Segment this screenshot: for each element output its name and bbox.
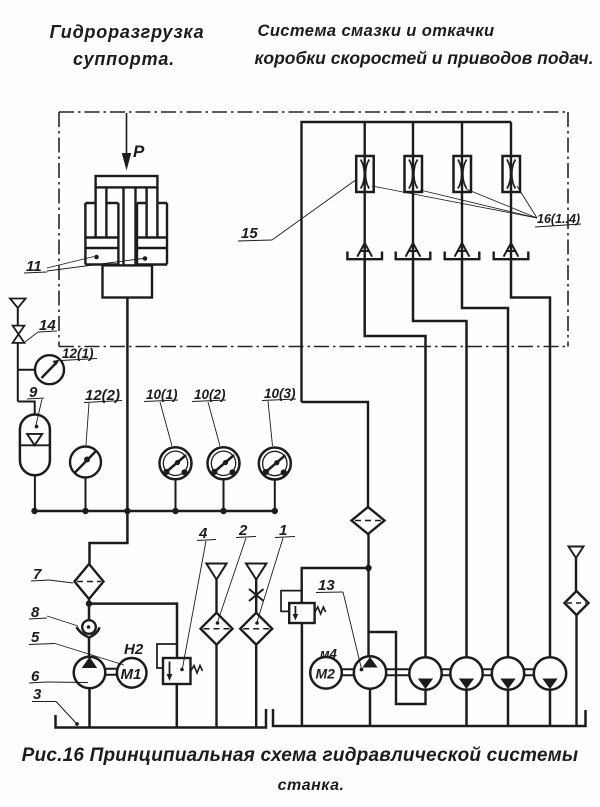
label 14 [25,317,57,342]
accumulator 9 body [20,415,50,476]
cylinder 11 right barrel [137,203,167,265]
nozzle tray 3 [445,252,480,260]
label 8 [29,604,78,626]
cylinder 11 left piston rod [96,187,107,237]
force arrow P line [126,113,128,155]
svg-text:Р: Р [133,142,145,161]
nozzle tray 1 [347,252,382,260]
lube branch 1 drop pipe [364,122,366,259]
pipe funnel right to filter [575,558,577,592]
coupling to fourth scavenge pump [524,669,534,675]
cylinder 11 right piston rod [147,187,158,237]
contact gauge 10(2) [208,447,240,479]
label 5 [29,629,124,665]
pipe branch 4 step to pump [511,259,550,658]
junction dot relief tap [365,565,371,571]
bus pipe left system [34,510,275,513]
coupling to third scavenge pump [483,669,492,675]
svg-text:16(1..4): 16(1..4) [537,212,580,226]
pipe gauge 10(1) to bus [175,479,177,511]
caption [22,745,579,794]
svg-text:М2: М2 [316,666,336,682]
supply header pipe [302,122,512,402]
coupling to second scavenge pump [442,669,451,675]
cylinder 11 top plate [96,176,158,187]
label 13 [316,577,363,671]
coupling pump 13 to pump row [386,669,409,675]
pipe funnel 2 to filter 2 [215,580,217,614]
svg-text:М1: М1 [121,666,142,683]
svg-text:2: 2 [238,522,248,539]
contact gauge 10(1) [160,447,192,479]
svg-text:Система смазки и откачки: Система смазки и откачки [258,22,495,40]
label 3 [32,686,79,726]
pipe gauge 10(2) to bus [223,479,225,511]
title left [50,22,205,69]
accumulator 9 gas separator [20,434,50,445]
label 10(2) [192,387,226,446]
shutoff valve 14 [13,326,25,343]
gauge 12(1) [35,355,64,384]
svg-text:15: 15 [241,225,258,242]
nozzle arrow 1 [357,243,372,257]
pressure filter right system [352,507,385,534]
pipe gauge 12(2) to bus [85,478,87,512]
nozzle arrow 3 [455,243,470,257]
electric motor M1 [117,658,147,688]
svg-text:4: 4 [198,525,208,542]
pipe branch 3 step to pump [462,259,508,658]
svg-text:13: 13 [318,577,335,594]
label 1 [255,522,295,625]
label 7 [31,566,73,583]
pipe relief valve 4 to tank [176,684,179,727]
tank right [273,709,586,726]
tank left [56,709,267,728]
svg-text:Рис.16 Принципиальная схема ги: Рис.16 Принципиальная схема гидравлическ… [22,745,579,766]
electric motor M2 [310,657,342,689]
pipe pump 5 to tank [88,688,91,727]
pipe filter right to tank [575,615,577,725]
pipe relief valve right to tank [301,623,304,725]
nozzle tray 2 [396,252,431,260]
pipe breather to valve 14 [17,308,19,326]
label 6 [29,668,88,685]
svg-text:Гидроразгрузка: Гидроразгрузка [50,22,205,42]
relief valve right pilot loop [281,591,302,612]
dash-dot enclosure frame [59,112,568,347]
pipe funnel 1 down [255,580,257,614]
filter right drain [565,591,589,615]
filter 1 [240,613,272,645]
funnel breather top-left [10,299,26,309]
label 12(1) [61,346,97,361]
pipe header to filter [302,402,369,507]
pipe junction to relief valve 4 [89,604,177,658]
pipe tap to relief valve [302,568,369,603]
cylinder 11 lower manifold [103,265,153,297]
nozzle arrow 2 [406,243,421,257]
label 11 [24,255,147,275]
check valve 8 [77,620,100,637]
svg-text:м4: м4 [320,646,338,661]
title right [255,22,594,68]
pipe branch 1 step to pump [365,259,426,658]
orifice 16(2) [405,156,423,192]
scavenge pump (first) [409,657,441,689]
svg-text:станка.: станка. [278,777,345,794]
funnel right [569,547,584,559]
svg-text:5: 5 [31,629,40,646]
pump 5 [74,657,106,689]
pipe bus down-jog to filter 7 [90,511,128,564]
lube branch 3 drop pipe [461,122,463,259]
pipe valve 14 down [17,343,19,402]
svg-text:суппорта.: суппорта. [73,49,175,69]
junction dots on bus [31,508,278,514]
label 15 [238,179,357,242]
pipe check valve to pump 5 [88,638,91,657]
gauge 12(2) [70,447,101,478]
filter 2 [201,613,233,645]
lube branch 4 drop pipe [510,122,512,259]
funnel 2 [206,564,226,580]
label 12(2) [84,387,122,445]
cylinder 11 central trunk [124,187,136,265]
label 10(3) [262,386,296,446]
pipe branch 2 step to pump [413,259,467,658]
coupling pump 5 to motor M1 [105,669,117,675]
scavenge pump (third) [492,657,524,689]
pipe filter 1 to tank [255,645,257,727]
pipe second scavenge pump to tank [465,690,468,725]
force arrow P head [122,153,131,171]
pipe gauge 10(3) to bus [274,480,276,512]
scavenge pump (fourth) [534,657,566,689]
shutoff X on line 1 [249,589,264,601]
relief valve right [289,603,325,623]
label 4 [183,525,217,668]
contact gauge 10(3) [259,448,291,480]
svg-text:Н2: Н2 [124,641,144,658]
pipe filter 7 to junction [88,599,91,621]
filter 7 [75,564,104,599]
pipe tee to gauge 12(1) [18,369,35,371]
pipe filter 2 to tank [215,645,217,727]
funnel 1 [246,564,266,580]
pipe filter to pump 13 [367,534,369,656]
svg-text:3: 3 [33,686,42,703]
pipe pump 13 to tank [369,689,372,725]
pipe cylinder to bus [126,298,129,512]
relief valve 4 [163,658,203,684]
nozzle arrow 4 [504,243,519,257]
pipe jog to accumulator [18,402,35,415]
orifice 16(4) [503,156,521,192]
svg-text:коробки скоростей и приводов п: коробки скоростей и приводов подач. [255,48,594,68]
relief valve 4 pilot loop [157,644,177,668]
pipe fourth scavenge pump to tank [549,690,552,725]
orifice 16(3) [454,156,472,192]
junction dot below filter 7 [86,600,92,606]
pump 13 [354,656,386,688]
pipe third scavenge pump to tank [507,690,510,725]
label 16(1..4) [372,186,581,227]
scavenge pump (second) [450,657,482,689]
pipe accumulator to bus [34,475,36,511]
label 9 [27,384,44,428]
lube branch 2 drop pipe [412,122,414,259]
pipe loop supply to pump 2 suction [369,632,426,704]
nozzle tray 4 [494,252,529,260]
cylinder 11 left barrel [85,203,118,265]
orifice 16(1) [356,156,374,192]
label 10(1) [144,387,178,446]
label 2 [216,522,256,625]
coupling M2 to pump 13 [342,669,354,675]
